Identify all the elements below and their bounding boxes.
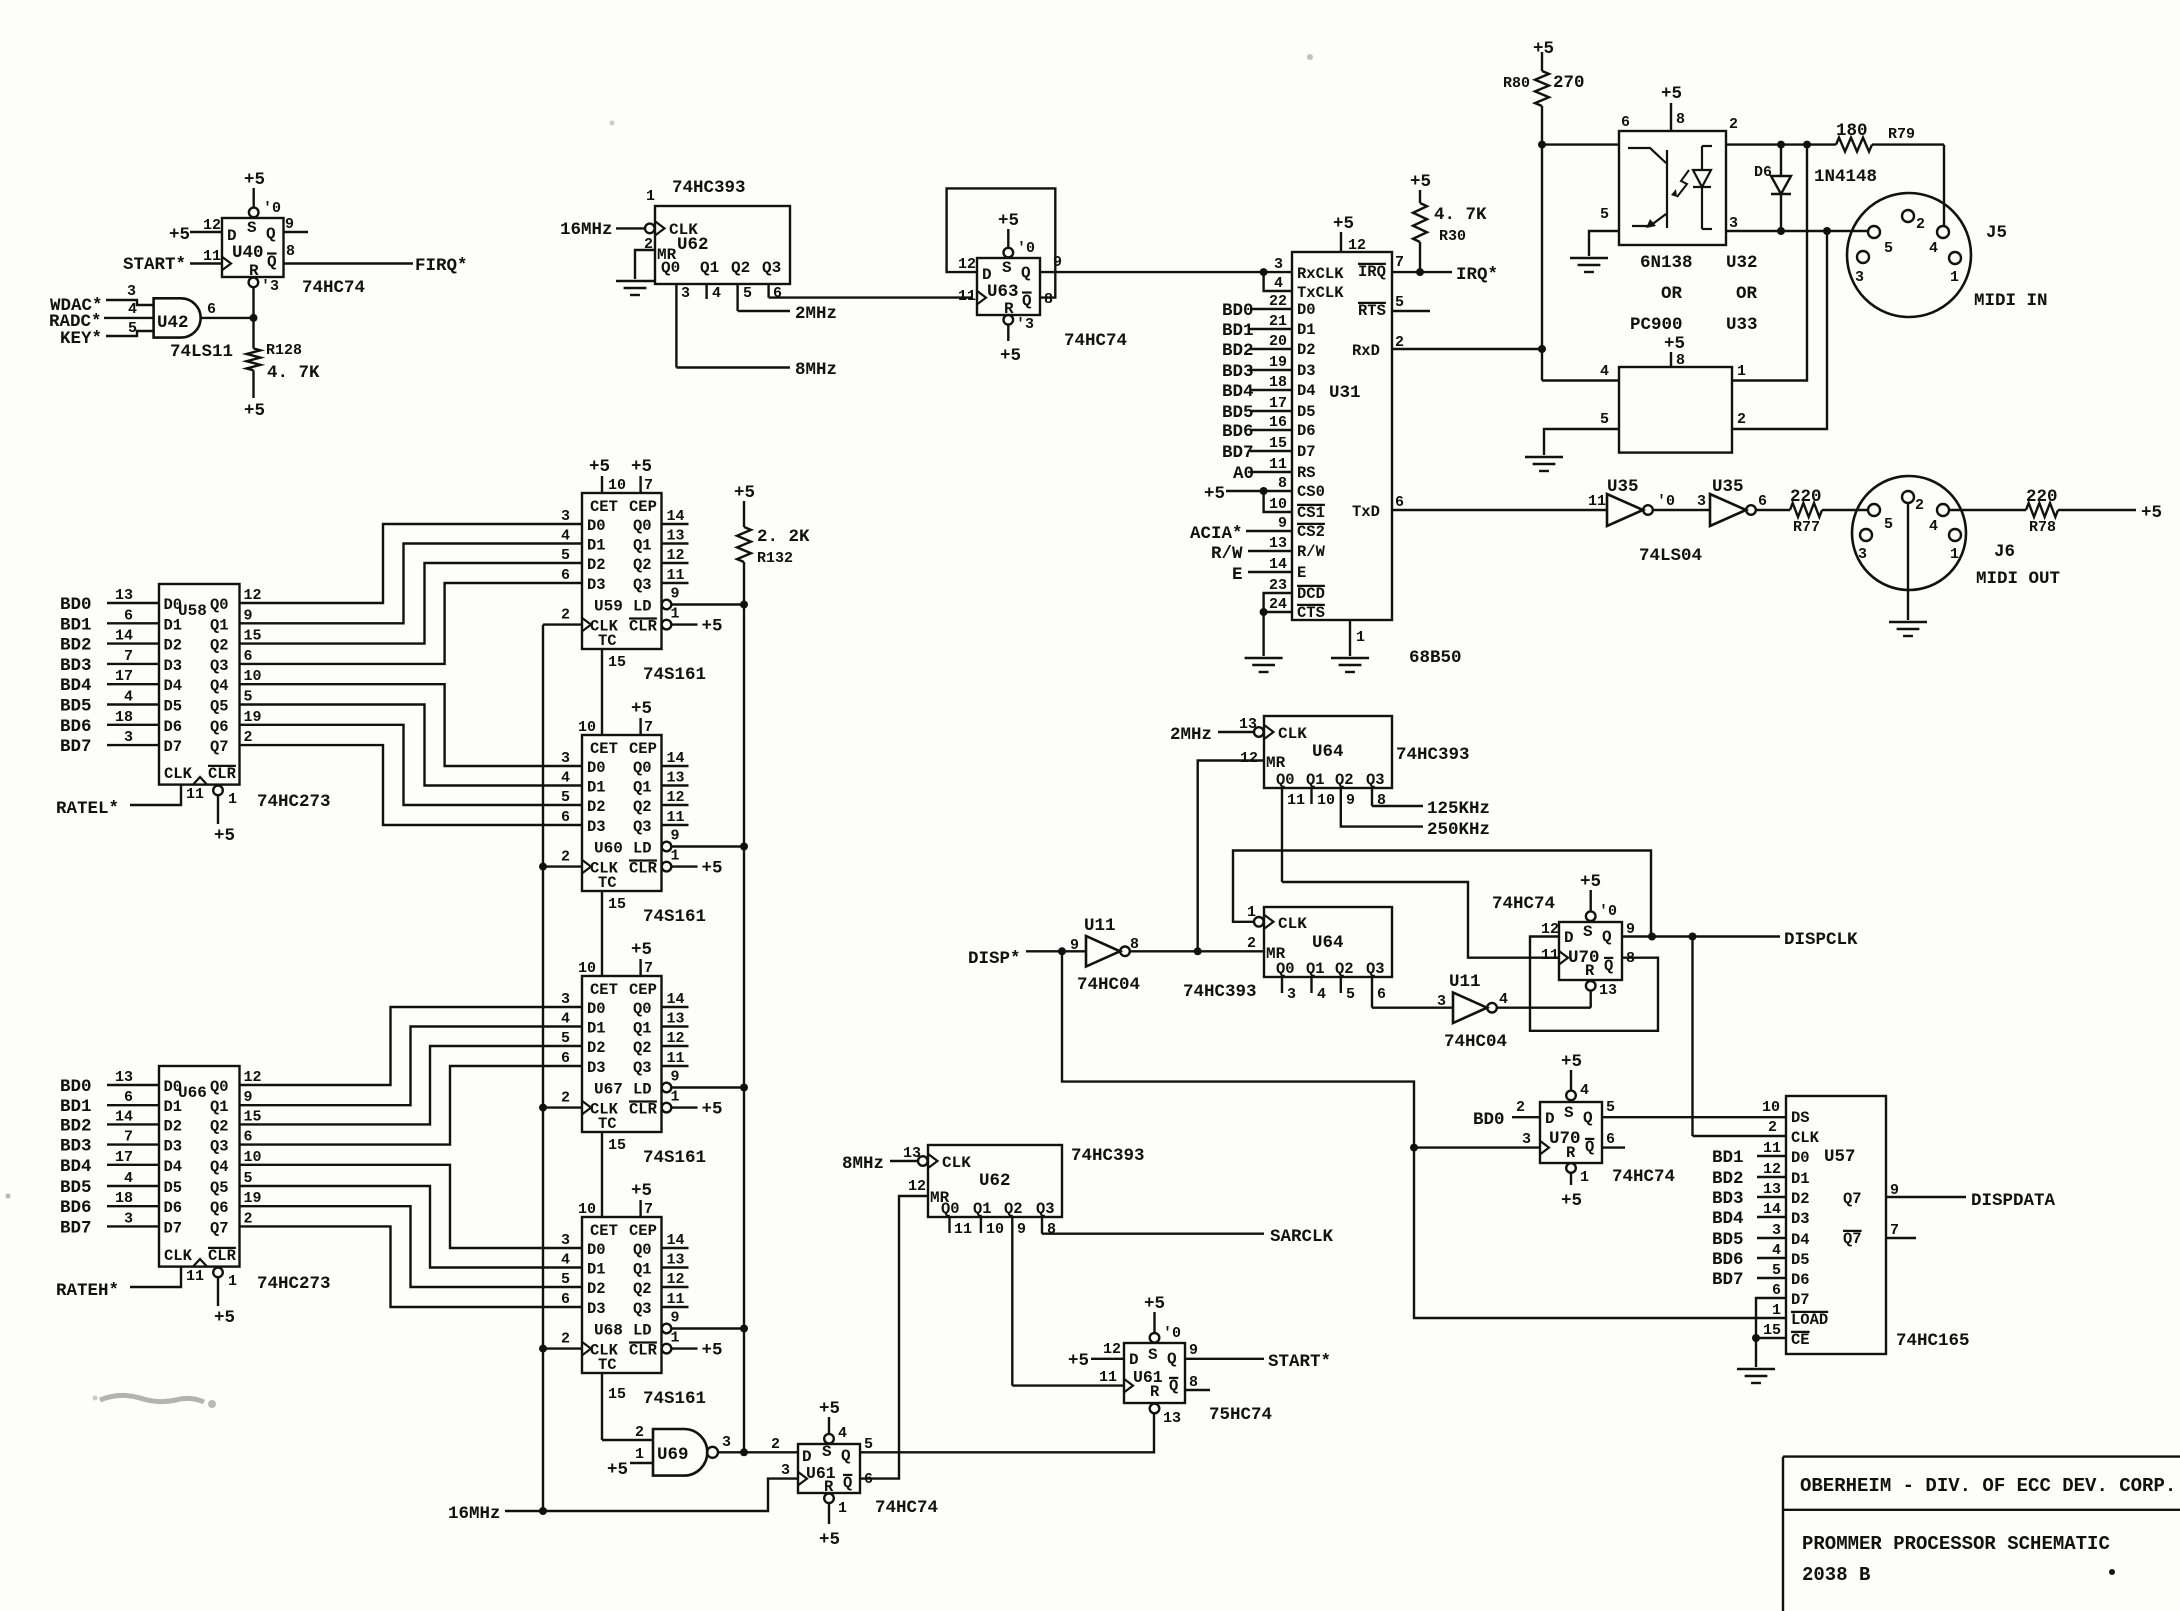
- svg-text:MIDI IN: MIDI IN: [1974, 291, 2048, 311]
- svg-text:+5: +5: [244, 401, 265, 421]
- svg-text:5: 5: [1884, 240, 1893, 257]
- svg-text:2: 2: [771, 1436, 780, 1453]
- svg-text:13: 13: [1269, 535, 1287, 552]
- svg-text:Q0: Q0: [210, 1078, 229, 1096]
- svg-text:1: 1: [1772, 1302, 1781, 1319]
- wire branch up to U64a.MR pin 12: [1198, 761, 1264, 952]
- label 74HC74 for U61a: [875, 1498, 938, 1518]
- svg-text:U60: U60: [594, 840, 623, 858]
- pin 15 label U57.CE stub: [1752, 1322, 1786, 1342]
- svg-text:RxD: RxD: [1352, 342, 1380, 360]
- svg-text:1: 1: [1580, 1169, 1589, 1186]
- value 220 for R78: [2026, 487, 2058, 507]
- svg-text:Q: Q: [1583, 1109, 1593, 1127]
- svg-text:D5: D5: [164, 1179, 183, 1197]
- pin 1 bubble U61a.R and +5: [819, 1494, 847, 1551]
- wire U69 output to U61 D pin 2: [718, 1448, 798, 1456]
- U59 D input pin numbers: [561, 508, 570, 584]
- IC U57 74HC165 shift register: [1786, 1096, 1886, 1354]
- svg-text:Q0: Q0: [1276, 771, 1295, 789]
- U31 pin 1 ground stub: [1350, 620, 1365, 656]
- +5 into U69 pin 1: [607, 1446, 653, 1480]
- svg-text:14: 14: [667, 750, 685, 767]
- svg-text:74HC393: 74HC393: [672, 178, 746, 198]
- svg-text:12: 12: [667, 789, 685, 806]
- svg-text:U63: U63: [987, 282, 1019, 302]
- svg-text:KEY*: KEY*: [60, 329, 102, 349]
- svg-text:2: 2: [1516, 1099, 1525, 1116]
- svg-text:6N138: 6N138: [1640, 253, 1693, 273]
- wire U62.MR to ground: [635, 250, 655, 279]
- ground at U31 left: [1245, 658, 1283, 672]
- svg-text:R77: R77: [1793, 519, 1820, 536]
- svg-text:MIDI OUT: MIDI OUT: [1976, 569, 2060, 589]
- resistor R132 2.2K pull-up and rail: [734, 483, 755, 1455]
- svg-text:D4: D4: [164, 1158, 183, 1176]
- U11a output bubble pin 8: [1120, 936, 1139, 956]
- svg-text:Q3: Q3: [1036, 1200, 1055, 1218]
- node 16MHz into U62 clock: [560, 220, 645, 240]
- junction at U31 RxCLK: [1260, 268, 1268, 276]
- optocoupler U33 PC900 box: [1619, 367, 1732, 453]
- svg-text:14: 14: [667, 991, 685, 1008]
- stray dot left margin: [6, 54, 1314, 1199]
- svg-text:15: 15: [608, 1137, 626, 1154]
- svg-text:BD5: BD5: [60, 697, 92, 717]
- svg-text:1: 1: [228, 791, 237, 808]
- svg-text:6: 6: [244, 648, 253, 665]
- svg-text:11: 11: [1287, 792, 1305, 809]
- svg-text:14: 14: [667, 1232, 685, 1249]
- U68 CEP pin 7 +5: [631, 1181, 653, 1218]
- svg-text:CET: CET: [590, 981, 618, 999]
- label 74HC393 for U64a: [1396, 745, 1470, 765]
- svg-text:68B50: 68B50: [1409, 648, 1462, 668]
- pin 4 label U42: [128, 301, 137, 318]
- flip-flop U70 first (74HC74): [1559, 922, 1622, 980]
- svg-text:BD7: BD7: [1222, 443, 1254, 463]
- svg-text:Q3: Q3: [633, 1059, 652, 1077]
- svg-text:U59: U59: [594, 598, 623, 616]
- svg-text:R: R: [1585, 962, 1595, 980]
- svg-text:14: 14: [115, 628, 133, 645]
- U58 output pin numbers: [244, 587, 262, 746]
- wire U35a to U35b: [1653, 509, 1710, 511]
- pin 2 label opto U33: [1737, 411, 1746, 428]
- svg-text:Q0: Q0: [210, 596, 229, 614]
- svg-text:D2: D2: [587, 798, 606, 816]
- +5 above R80: [1533, 39, 1554, 59]
- svg-text:7: 7: [644, 477, 653, 494]
- svg-text:13: 13: [903, 1145, 921, 1162]
- IC U58 (74HC273): [159, 584, 240, 785]
- pin 6 stub U70b.Qbar: [1602, 1131, 1625, 1148]
- svg-text:Q: Q: [1585, 1138, 1594, 1156]
- svg-text:R79: R79: [1888, 126, 1915, 143]
- svg-text:R: R: [1150, 1383, 1160, 1401]
- svg-text:2: 2: [1916, 216, 1925, 233]
- svg-text:6: 6: [244, 1129, 253, 1146]
- svg-text:BD7: BD7: [1712, 1270, 1744, 1290]
- svg-text:12: 12: [244, 1069, 262, 1086]
- U58 CLR bubble pin 1 to +5: [213, 786, 237, 846]
- pin 2 label U31.RxD: [1395, 334, 1404, 351]
- feedback loop U63.Qbar to U63.D: [947, 188, 1056, 297]
- svg-text:+5: +5: [244, 170, 265, 190]
- wire U58.Q7 to U60.D3: [240, 745, 583, 825]
- svg-text:220: 220: [2026, 487, 2058, 507]
- wire loop to U31.TxCLK: [1264, 272, 1292, 291]
- svg-text:4: 4: [124, 689, 133, 706]
- AND gate U42 (74LS11): [154, 298, 201, 337]
- svg-text:LD: LD: [633, 598, 652, 616]
- svg-text:RxCLK: RxCLK: [1297, 265, 1344, 283]
- svg-text:5: 5: [1395, 294, 1404, 311]
- svg-text:BD5: BD5: [1712, 1230, 1744, 1250]
- svg-text:1: 1: [635, 1446, 644, 1463]
- wire U40.Qbar to FIRQ*: [284, 262, 414, 264]
- svg-text:LD: LD: [633, 1322, 652, 1340]
- svg-text:74HC74: 74HC74: [1492, 894, 1555, 914]
- svg-text:BD0: BD0: [60, 595, 92, 615]
- svg-text:Q7: Q7: [1843, 1190, 1862, 1208]
- svg-text:Q4: Q4: [210, 1158, 229, 1176]
- svg-text:Q1: Q1: [210, 1098, 229, 1116]
- wire U11b output to U70a.R pin 13: [1497, 991, 1591, 1008]
- svg-text:5: 5: [1884, 516, 1893, 533]
- svg-text:D6: D6: [164, 1199, 183, 1217]
- inverter U35 first (74LS04): [1607, 494, 1643, 526]
- counter U62 (74HC393) first half: [655, 206, 790, 284]
- svg-text:D0: D0: [587, 759, 606, 777]
- svg-text:74LS11: 74LS11: [170, 342, 233, 362]
- svg-text:CLR: CLR: [208, 1247, 237, 1265]
- svg-text:4: 4: [712, 285, 721, 302]
- svg-text:2: 2: [1768, 1119, 1777, 1136]
- svg-text:2: 2: [635, 1424, 644, 1441]
- ground below J6: [1889, 622, 1927, 636]
- svg-text:+5: +5: [1333, 214, 1354, 234]
- svg-text:OR: OR: [1661, 284, 1683, 304]
- svg-text:2: 2: [561, 1090, 570, 1107]
- wire U64b clock feedback from DISPCLK node: [1233, 851, 1651, 937]
- svg-text:S: S: [822, 1443, 832, 1461]
- svg-text:11: 11: [1588, 493, 1606, 510]
- +5 into U31.CS0 and CS1: [1204, 484, 1292, 512]
- svg-text:+5: +5: [734, 483, 755, 503]
- svg-text:BD3: BD3: [60, 1137, 92, 1157]
- wire U61a.Q to U61b.R: [860, 1414, 1154, 1452]
- svg-text:DCD: DCD: [1297, 585, 1325, 603]
- svg-text:U64: U64: [1312, 742, 1344, 762]
- pin 9 label U70a.Q: [1626, 921, 1635, 938]
- +5 into U40.D: [169, 225, 222, 245]
- svg-text:+5: +5: [1533, 39, 1554, 59]
- node ACIA* into U31.CS2: [1190, 524, 1292, 544]
- node BD0 into U70b.D pin 2: [1473, 1099, 1540, 1130]
- svg-text:CEP: CEP: [629, 1222, 657, 1240]
- U67 Q output stubs and pin numbers: [662, 991, 689, 1067]
- svg-text:17: 17: [115, 668, 133, 685]
- U66 output pin numbers: [244, 1069, 262, 1227]
- svg-text:4: 4: [561, 528, 570, 545]
- svg-text:U69: U69: [657, 1445, 689, 1465]
- +5 and pin 12 into U61b.D: [1068, 1341, 1124, 1371]
- pin 4 wire into opto U33 from rail: [1542, 363, 1619, 381]
- svg-text:D3: D3: [587, 1059, 606, 1077]
- svg-text:Q0: Q0: [1276, 960, 1295, 978]
- svg-text:13: 13: [667, 1252, 685, 1269]
- svg-text:CLK: CLK: [1278, 915, 1307, 933]
- svg-text:5: 5: [1600, 206, 1609, 223]
- title text OBERHEIM: [1800, 1475, 2176, 1497]
- pin 10 label U57.DS: [1762, 1099, 1780, 1116]
- svg-text:BD5: BD5: [60, 1178, 92, 1198]
- svg-text:BD1: BD1: [1222, 321, 1254, 341]
- label 74S161 for U59: [643, 665, 706, 685]
- pin 9 label U57.Q7: [1890, 1182, 1899, 1199]
- label 74HC273 for U66: [257, 1274, 331, 1294]
- svg-text:6: 6: [1395, 494, 1404, 511]
- svg-text:12: 12: [958, 256, 976, 273]
- node 16MHz bottom: [448, 1504, 501, 1524]
- flip-flop U70 second (74HC74): [1540, 1102, 1602, 1163]
- svg-text:D0: D0: [587, 1241, 606, 1259]
- wire U63.Q to U31.RxCLK: [1040, 271, 1292, 273]
- svg-text:3: 3: [1858, 546, 1867, 563]
- svg-text:4: 4: [1499, 991, 1508, 1008]
- svg-text:4: 4: [838, 1425, 847, 1442]
- svg-text:12: 12: [244, 587, 262, 604]
- wire DISPCLK down to U57 clock: [1691, 937, 1693, 1137]
- counter U59 (74S161): [582, 493, 662, 650]
- svg-text:9: 9: [1017, 1221, 1026, 1238]
- svg-text:U66: U66: [178, 1084, 207, 1102]
- svg-text:+5: +5: [1561, 1052, 1582, 1072]
- svg-text:4: 4: [1929, 240, 1938, 257]
- svg-text:D5: D5: [1297, 403, 1316, 421]
- svg-text:Q: Q: [1604, 957, 1613, 975]
- wire opto pin2 row to R79 and down-branches: [1726, 141, 1836, 149]
- svg-text:74S161: 74S161: [643, 907, 706, 927]
- svg-text:Q1: Q1: [1306, 960, 1325, 978]
- svg-text:13: 13: [667, 770, 685, 787]
- wire U66.Q6 to U68.D2: [240, 1206, 583, 1287]
- svg-text:74HC74: 74HC74: [302, 278, 365, 298]
- svg-text:U40: U40: [232, 243, 264, 263]
- svg-text:13: 13: [667, 1011, 685, 1028]
- svg-text:D: D: [1545, 1110, 1555, 1128]
- svg-text:5: 5: [128, 320, 137, 337]
- svg-text:D1: D1: [1297, 321, 1316, 339]
- svg-text:8MHz: 8MHz: [795, 360, 837, 380]
- svg-text:6: 6: [1621, 114, 1630, 131]
- svg-text:+5: +5: [1000, 346, 1021, 366]
- wire U61a.Qbar up to U62b.MR: [860, 1196, 928, 1479]
- svg-text:CLK: CLK: [164, 1247, 193, 1265]
- label U11 second: [1449, 972, 1481, 992]
- svg-text:6: 6: [773, 285, 782, 302]
- wire TC of previous counter to U60 CET pin 10: [578, 649, 626, 736]
- svg-text:CLR: CLR: [629, 860, 658, 878]
- svg-text:BD7: BD7: [60, 1218, 92, 1238]
- U59 CET pin 10 +5: [589, 457, 626, 494]
- label 74HC74 for U70a: [1492, 894, 1555, 914]
- svg-text:7: 7: [644, 719, 653, 736]
- svg-text:CLK: CLK: [942, 1154, 971, 1172]
- svg-text:Q7: Q7: [210, 1219, 229, 1237]
- svg-text:PC900: PC900: [1630, 315, 1683, 335]
- pin 2 label opto right top: [1729, 116, 1738, 133]
- counter U62 second half (74HC393): [928, 1145, 1062, 1218]
- svg-text:CLK: CLK: [1278, 725, 1307, 743]
- svg-text:12: 12: [1103, 1341, 1121, 1358]
- svg-text:12: 12: [1348, 237, 1366, 254]
- label 74HC74 for U40: [302, 278, 365, 298]
- node DISP* input: [968, 947, 1086, 969]
- wire J6 pin4 to R78: [1949, 509, 2026, 511]
- svg-text:74HC393: 74HC393: [1396, 745, 1470, 765]
- svg-text:6: 6: [561, 809, 570, 826]
- svg-text:S: S: [247, 219, 257, 237]
- svg-text:3: 3: [1287, 986, 1296, 1003]
- svg-text:74S161: 74S161: [643, 1389, 706, 1409]
- U62 output pins 3,4,5,6: [676, 284, 782, 368]
- svg-text:220: 220: [1790, 487, 1822, 507]
- svg-text:13: 13: [1763, 1181, 1781, 1198]
- pin 2 label U64b.MR: [1247, 935, 1256, 952]
- label 74HC165 for U57: [1896, 1331, 1970, 1351]
- svg-text:2: 2: [1737, 411, 1746, 428]
- svg-text:Q: Q: [1167, 1350, 1177, 1368]
- svg-text:6: 6: [207, 301, 216, 318]
- pin 3 label U61a.CLK: [781, 1462, 790, 1479]
- svg-text:3: 3: [722, 1434, 731, 1451]
- svg-text:CET: CET: [590, 498, 618, 516]
- svg-text:BD0: BD0: [1222, 301, 1254, 321]
- svg-text:7: 7: [124, 648, 133, 665]
- pin 10 bubble U63.S: [1004, 240, 1036, 257]
- svg-text:D6: D6: [1754, 164, 1772, 181]
- resistor R79 180: [1836, 138, 1944, 152]
- U68 CLR bubble pin 1 to +5: [662, 1330, 723, 1361]
- svg-text:19: 19: [244, 709, 262, 726]
- label 75HC74 for U61b: [1209, 1405, 1272, 1425]
- svg-text:BD2: BD2: [60, 1116, 92, 1136]
- bus labels BD1-BD7 into U57: [1712, 1140, 1786, 1290]
- svg-text:11: 11: [954, 1221, 972, 1238]
- svg-text:BD1: BD1: [60, 1097, 92, 1117]
- svg-text:D3: D3: [1297, 362, 1316, 380]
- label 74HC393 for U64b: [1183, 982, 1257, 1002]
- wire U62b.Q3 to SARCLK: [1042, 1232, 1264, 1234]
- wire U66.Q5 to U68.D1: [240, 1186, 583, 1268]
- svg-text:BD6: BD6: [60, 1198, 92, 1218]
- svg-text:Q2: Q2: [731, 259, 750, 277]
- flip-flop U40 (74HC74): [222, 218, 284, 280]
- svg-text:2: 2: [561, 607, 570, 624]
- label 74HC04 for U11b: [1444, 1032, 1507, 1052]
- wire U64a.Q3 to 125KHz: [1372, 797, 1423, 806]
- node 2MHz into U64a clock: [1170, 725, 1254, 745]
- svg-text:Q0: Q0: [633, 759, 652, 777]
- svg-text:+5: +5: [607, 1460, 628, 1480]
- node KEY* input wire: [60, 329, 154, 349]
- svg-text:R30: R30: [1439, 228, 1466, 245]
- U60 Q output stubs and pin numbers: [662, 750, 689, 826]
- svg-text:16MHz: 16MHz: [448, 1504, 501, 1524]
- svg-text:4: 4: [561, 770, 570, 787]
- svg-text:D7: D7: [164, 738, 183, 756]
- pin 11 label U35a: [1588, 493, 1606, 510]
- svg-text:+5: +5: [1664, 334, 1685, 354]
- pin 6 wire into opto from rail: [1538, 114, 1630, 149]
- svg-text:19: 19: [244, 1190, 262, 1207]
- wire U35b to R77: [1756, 509, 1790, 511]
- svg-text:13: 13: [1599, 982, 1617, 999]
- svg-text:BD5: BD5: [1222, 403, 1254, 423]
- wire TC of previous counter to U67 CET pin 10: [578, 891, 626, 977]
- svg-text:+5: +5: [702, 859, 723, 879]
- svg-text:S: S: [1002, 259, 1012, 277]
- pin 10 bubble U40.S: [249, 208, 259, 218]
- label 74HC393 for U62b: [1071, 1146, 1145, 1166]
- svg-text:3: 3: [124, 1210, 133, 1227]
- pin 5 label U61a.Q: [864, 1436, 873, 1453]
- pin 1 label opto U33: [1737, 363, 1746, 380]
- svg-text:74HC74: 74HC74: [1064, 331, 1127, 351]
- svg-text:4: 4: [1317, 986, 1326, 1003]
- svg-text:Q2: Q2: [633, 1280, 652, 1298]
- counter U60 (74S161): [582, 735, 662, 892]
- svg-text:+5: +5: [589, 457, 610, 477]
- svg-text:23: 23: [1269, 577, 1287, 594]
- svg-text:4: 4: [1580, 1082, 1589, 1099]
- bus labels BD0-BD7 into U58: [60, 587, 159, 757]
- svg-text:D1: D1: [587, 1261, 606, 1279]
- svg-text:MR: MR: [1266, 754, 1286, 772]
- wire U66.Q1 to U67.D1: [240, 1027, 583, 1106]
- feedback loop U70a.Qbar to U70a.D: [1530, 937, 1658, 1031]
- resistor R78 220: [2026, 503, 2136, 517]
- svg-text:5: 5: [864, 1436, 873, 1453]
- svg-text:6: 6: [1606, 1131, 1615, 1148]
- opto light squiggle arrow: [1671, 170, 1689, 197]
- svg-text:D0: D0: [1791, 1149, 1810, 1167]
- svg-text:CS2: CS2: [1297, 523, 1325, 541]
- pin 9 label and Q stub: [284, 216, 309, 233]
- svg-text:D7: D7: [1791, 1291, 1810, 1309]
- svg-text:1: 1: [671, 1089, 680, 1106]
- pin 3 label U35b: [1697, 493, 1706, 510]
- svg-text:Q2: Q2: [1335, 771, 1354, 789]
- J6 pin circles and numbers: [1858, 491, 1961, 563]
- svg-text:'0: '0: [263, 200, 281, 217]
- wire U42 output to node: [201, 317, 254, 319]
- svg-text:16MHz: 16MHz: [560, 220, 613, 240]
- svg-text:7: 7: [1890, 1222, 1899, 1239]
- pin 13 bubble U40.R: [249, 278, 279, 295]
- ground at U31 pin 1: [1331, 658, 1369, 672]
- title text 2038 B: [1802, 1564, 1870, 1586]
- svg-text:6: 6: [1758, 493, 1767, 510]
- svg-text:74HC74: 74HC74: [1612, 1167, 1675, 1187]
- svg-text:2: 2: [561, 849, 570, 866]
- wire U70b.Q to U57.DS: [1602, 1116, 1786, 1118]
- svg-text:13: 13: [1239, 716, 1257, 733]
- svg-text:8: 8: [1676, 352, 1685, 369]
- U68 CLK pin 2 wire from clock rail: [543, 1331, 582, 1349]
